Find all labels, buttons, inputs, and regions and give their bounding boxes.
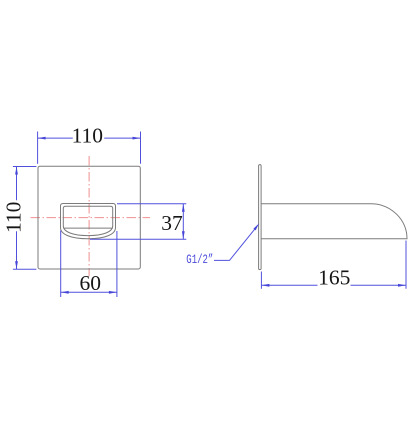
svg-text:60: 60 — [80, 271, 102, 295]
svg-text:110: 110 — [1, 202, 25, 233]
svg-text:37: 37 — [161, 211, 183, 235]
svg-text:G1/2”: G1/2” — [186, 254, 213, 268]
svg-text:165: 165 — [318, 266, 350, 290]
svg-text:110: 110 — [72, 123, 103, 147]
